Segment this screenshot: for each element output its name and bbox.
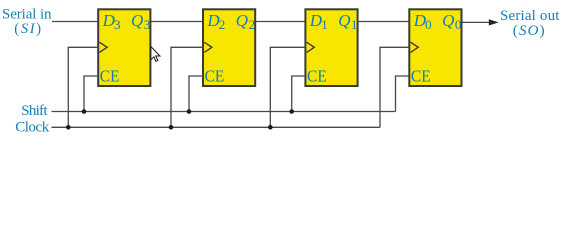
wire: clock input U0 [380, 47, 409, 127]
wire: Q3 to D2 [150, 21, 203, 23]
wire: Clock bus [52, 126, 381, 128]
clock triangle U1 [307, 42, 315, 52]
wire: CE input U2 [189, 76, 203, 112]
junction Shift-CE1 [289, 109, 294, 114]
svg-text:(SO): (SO) [513, 23, 545, 39]
wire: CE input U0 [396, 76, 410, 112]
svg-text:(SI): (SI) [14, 21, 41, 37]
clock triangle U3 [99, 42, 107, 52]
wire: CE input U1 [292, 76, 306, 112]
svg-text:2: 2 [219, 17, 226, 32]
wire: CE input U3 [84, 76, 98, 112]
junction Clock-U1 [268, 125, 273, 130]
svg-text:3: 3 [144, 17, 151, 32]
svg-text:Shift: Shift [21, 103, 48, 119]
clock triangle U2 [204, 42, 212, 52]
svg-text:0: 0 [425, 17, 432, 32]
svg-text:2: 2 [249, 17, 256, 32]
wire: clock input U1 [270, 47, 305, 127]
svg-text:Clock: Clock [15, 119, 50, 135]
wire: Q0 to Serial out [462, 21, 492, 23]
junction Shift-CE2 [187, 109, 192, 114]
svg-text:3: 3 [114, 17, 121, 32]
flip-flop U1 body [305, 9, 357, 86]
junction Shift-CE3 [82, 109, 87, 114]
svg-text:Q: Q [131, 11, 143, 30]
wire: Q1 to D0 [358, 21, 410, 23]
arrowhead serial out [489, 19, 499, 25]
clock triangle U0 [411, 42, 419, 52]
junction Clock-U3 [66, 125, 71, 130]
wire: clock input U2 [171, 47, 203, 127]
wire: Q2 to D1 [255, 21, 305, 23]
svg-text:CE: CE [100, 66, 120, 85]
svg-text:1: 1 [321, 17, 328, 32]
mouse cursor [151, 47, 160, 62]
svg-text:Q: Q [236, 11, 248, 30]
svg-text:CE: CE [411, 66, 431, 85]
svg-text:Serial out: Serial out [500, 8, 560, 24]
wire: clock input U3 [68, 47, 98, 127]
junction Clock-U2 [169, 125, 174, 130]
svg-text:CE: CE [205, 66, 225, 85]
svg-text:0: 0 [455, 17, 462, 32]
svg-text:Q: Q [338, 11, 350, 30]
flip-flop U2 body [203, 9, 255, 86]
wire: Shift bus [52, 111, 396, 113]
svg-text:1: 1 [351, 17, 358, 32]
svg-text:Q: Q [442, 11, 454, 30]
flip-flop U0 body [409, 9, 461, 86]
wire: Serial in to D3 [52, 21, 98, 23]
svg-text:CE: CE [307, 66, 327, 85]
flip-flop U3 body [98, 9, 150, 86]
